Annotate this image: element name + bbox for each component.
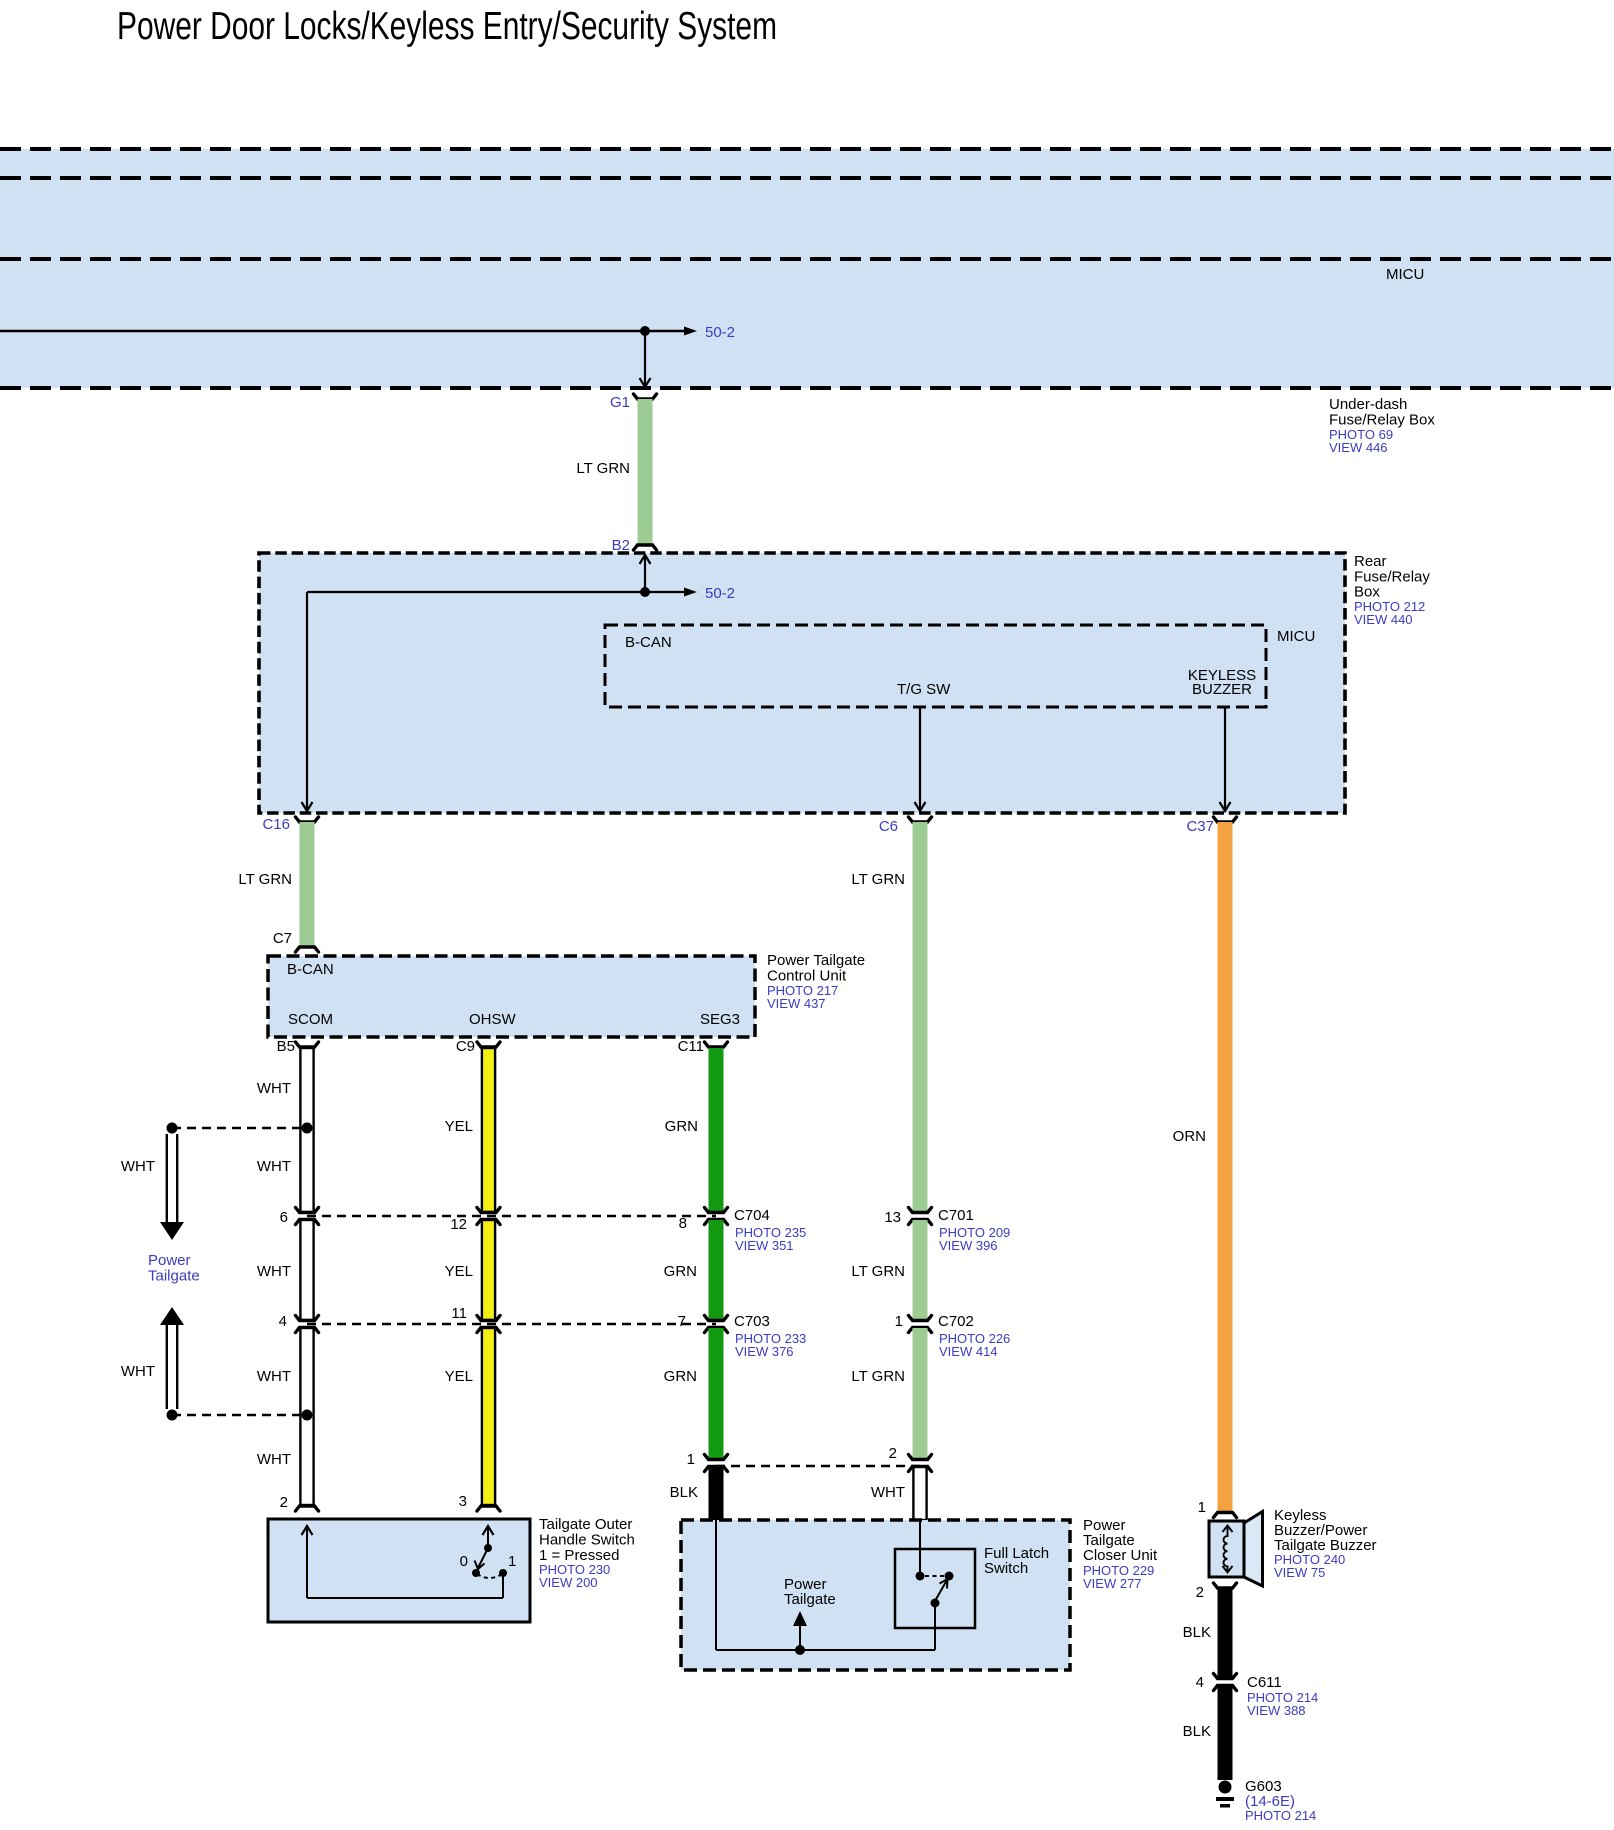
svg-text:YEL: YEL: [445, 1118, 473, 1135]
connector C16: [296, 817, 319, 822]
connector C9: [477, 1042, 500, 1047]
node: closer internal junction: [795, 1645, 805, 1655]
node: junction on WHT lower: [302, 1410, 313, 1421]
dashed latch contact link: [925, 1575, 945, 1577]
svg-text:C11: C11: [678, 1038, 704, 1055]
svg-text:VIEW 351: VIEW 351: [735, 1238, 794, 1253]
svg-text:6: 6: [280, 1209, 288, 1226]
connector B2: [634, 545, 657, 550]
connector B5: [296, 1042, 319, 1047]
wire: closer internal BLK path: [715, 1520, 717, 1650]
svg-text:C701: C701: [938, 1207, 974, 1224]
svg-text:C37: C37: [1186, 818, 1214, 835]
wire: closer internal WHT drop: [919, 1520, 921, 1574]
svg-text:1: 1: [895, 1313, 903, 1330]
node: junction in rear box: [640, 587, 650, 597]
B-CAN inner box (MICU): [605, 625, 1266, 707]
svg-text:G1: G1: [610, 394, 630, 411]
dashed net: closer unit row: [716, 1465, 920, 1467]
svg-text:4: 4: [279, 1313, 287, 1330]
svg-text:LT GRN: LT GRN: [238, 871, 292, 888]
wire LT GRN seg3: [913, 1328, 928, 1459]
node: contact 0 (handle switch): [472, 1569, 480, 1577]
wire: KEYLESS BUZZER to C37: [1224, 707, 1226, 810]
connector G1: [634, 394, 657, 399]
wire: feed to G1 junction: [0, 330, 645, 333]
connector pin 11: [477, 1316, 500, 1321]
full latch switch box: [895, 1549, 975, 1628]
node: latch contact right: [945, 1572, 954, 1581]
svg-text:50-2: 50-2: [705, 324, 735, 341]
connector pin 2 (closer unit): [909, 1455, 932, 1460]
svg-text:LT GRN: LT GRN: [851, 871, 905, 888]
wire LT GRN seg1: [913, 822, 928, 1212]
connector pin 12: [477, 1208, 500, 1213]
svg-text:WHT: WHT: [257, 1080, 291, 1097]
svg-text:VIEW 440: VIEW 440: [1354, 612, 1413, 627]
svg-text:B5: B5: [277, 1038, 295, 1055]
svg-text:8: 8: [679, 1215, 687, 1232]
svg-text:4: 4: [1196, 1674, 1204, 1691]
svg-text:1: 1: [687, 1451, 695, 1468]
dashed arc 0-1: [477, 1574, 502, 1578]
connector C704 pin 8: [705, 1208, 728, 1213]
svg-text:C611: C611: [1247, 1674, 1282, 1691]
wire: switch pin3 arrow: [483, 1526, 494, 1535]
svg-text:VIEW 376: VIEW 376: [735, 1344, 794, 1359]
svg-text:LT GRN: LT GRN: [851, 1263, 905, 1280]
svg-text:GRN: GRN: [664, 1263, 697, 1280]
connector pin 2 (handle switch): [296, 1506, 319, 1511]
svg-text:YEL: YEL: [445, 1368, 473, 1385]
svg-text:Tailgate Outer: Tailgate Outer: [539, 1516, 632, 1533]
svg-text:T/G SW: T/G SW: [897, 681, 951, 698]
svg-text:Box: Box: [1354, 584, 1380, 601]
wire YEL seg1: [482, 1048, 495, 1212]
svg-text:WHT: WHT: [121, 1363, 155, 1380]
svg-text:GRN: GRN: [664, 1368, 697, 1385]
svg-text:VIEW 75: VIEW 75: [1274, 1565, 1325, 1580]
svg-text:YEL: YEL: [445, 1263, 473, 1280]
svg-text:C16: C16: [262, 816, 290, 833]
connector C6: [909, 817, 932, 822]
connector C703 pin 7: [705, 1316, 728, 1321]
svg-text:Switch: Switch: [984, 1560, 1028, 1577]
svg-text:PHOTO 214: PHOTO 214: [1245, 1808, 1316, 1823]
svg-text:BUZZER: BUZZER: [1192, 681, 1252, 698]
svg-text:VIEW 388: VIEW 388: [1247, 1703, 1306, 1718]
dashed net: connector row 1: [307, 1215, 716, 1217]
svg-text:SCOM: SCOM: [288, 1011, 333, 1028]
buzzer body: [1209, 1521, 1244, 1577]
wire: run to C16: [307, 591, 645, 593]
wire LT GRN C16-C7: [300, 822, 315, 948]
svg-text:C9: C9: [456, 1038, 475, 1055]
svg-text:Under-dash: Under-dash: [1329, 396, 1407, 413]
wire: switch internal bottom run: [307, 1597, 503, 1599]
arrow: power tailgate (down): [166, 1134, 168, 1223]
svg-text:MICU: MICU: [1386, 266, 1424, 283]
svg-text:LT GRN: LT GRN: [576, 460, 630, 477]
wire: switch internal riser to contact 1: [502, 1576, 504, 1598]
svg-text:ORN: ORN: [1173, 1128, 1206, 1145]
node: left junction upper: [167, 1123, 178, 1134]
svg-text:1: 1: [508, 1553, 516, 1570]
wire YEL seg2: [482, 1220, 495, 1320]
svg-text:VIEW 396: VIEW 396: [939, 1238, 998, 1253]
svg-text:Rear: Rear: [1354, 553, 1387, 570]
wire WHT seg3: [300, 1328, 313, 1505]
svg-text:VIEW 200: VIEW 200: [539, 1575, 598, 1590]
buzzer coil: [1223, 1527, 1227, 1571]
wire BLK C611-G603: [1218, 1686, 1233, 1780]
power tailgate control unit box: [268, 956, 755, 1037]
svg-text:2: 2: [889, 1445, 897, 1462]
svg-text:GRN: GRN: [665, 1118, 698, 1135]
wire LT GRN G1-B2: [638, 399, 653, 546]
node: junction in band: [640, 326, 650, 336]
svg-text:C703: C703: [734, 1313, 770, 1330]
wire ORN C37-buzzer: [1218, 822, 1233, 1512]
svg-text:Handle Switch: Handle Switch: [539, 1532, 635, 1549]
wire GRN seg2: [709, 1220, 724, 1320]
svg-text:7: 7: [678, 1313, 686, 1330]
svg-text:B-CAN: B-CAN: [287, 961, 334, 978]
buzzer speaker cone: [1244, 1512, 1263, 1587]
svg-text:Power Door Locks/Keyless Entry: Power Door Locks/Keyless Entry/Security …: [117, 5, 777, 48]
svg-text:50-2: 50-2: [705, 585, 735, 602]
connector C11: [705, 1042, 728, 1047]
connector pin 3 (handle switch): [477, 1506, 500, 1511]
rear fuse/relay box: [259, 553, 1345, 813]
svg-text:Power Tailgate: Power Tailgate: [767, 952, 865, 969]
svg-text:Tailgate: Tailgate: [784, 1591, 836, 1608]
node: switch arm pivot: [484, 1544, 492, 1552]
ground G603: [1219, 1781, 1232, 1794]
wire WHT seg2: [300, 1220, 313, 1320]
svg-text:LT GRN: LT GRN: [851, 1368, 905, 1385]
connector pin 2 (buzzer): [1214, 1583, 1237, 1588]
svg-text:VIEW 437: VIEW 437: [767, 996, 826, 1011]
svg-text:BLK: BLK: [1183, 1624, 1211, 1641]
svg-text:WHT: WHT: [121, 1158, 155, 1175]
wire: B2 entry arrow: [644, 557, 646, 592]
svg-text:C704: C704: [734, 1207, 770, 1224]
svg-text:BLK: BLK: [670, 1484, 698, 1501]
svg-text:2: 2: [280, 1494, 288, 1511]
svg-text:BLK: BLK: [1183, 1723, 1211, 1740]
wire: T/G SW to C6: [919, 707, 921, 810]
wire YEL seg3: [482, 1328, 495, 1505]
node: latch common: [931, 1599, 940, 1608]
dashed net: junction row lower: [172, 1414, 307, 1416]
arrow: power tailgate (up): [160, 1307, 184, 1325]
svg-text:VIEW 446: VIEW 446: [1329, 440, 1388, 455]
tailgate outer handle switch box: [268, 1519, 530, 1622]
svg-text:WHT: WHT: [257, 1263, 291, 1280]
wire WHT to closer unit: [913, 1467, 926, 1520]
wire LT GRN seg2: [913, 1220, 928, 1320]
wire: 50-2 branch arrow (band): [645, 330, 684, 333]
svg-text:C702: C702: [938, 1313, 974, 1330]
wire GRN seg3: [709, 1328, 724, 1459]
svg-text:3: 3: [459, 1493, 467, 1510]
node: contact 1 (handle switch): [499, 1569, 507, 1577]
latch switch arm: [935, 1580, 947, 1601]
svg-text:1: 1: [1198, 1499, 1206, 1516]
svg-text:13: 13: [884, 1209, 901, 1226]
wire: drop to G1: [644, 331, 646, 386]
connector C611 pin 4: [1214, 1674, 1237, 1679]
svg-text:Power: Power: [148, 1252, 191, 1269]
svg-text:12: 12: [450, 1216, 467, 1233]
svg-text:C6: C6: [879, 818, 898, 835]
connector pin 1 (buzzer): [1214, 1513, 1237, 1518]
connector pin 1 (closer unit): [705, 1455, 728, 1460]
svg-text:WHT: WHT: [257, 1451, 291, 1468]
svg-text:Closer Unit: Closer Unit: [1083, 1547, 1158, 1564]
svg-text:Fuse/Relay Box: Fuse/Relay Box: [1329, 412, 1435, 429]
connector C37: [1214, 817, 1237, 822]
connector C702 pin 1: [909, 1316, 932, 1321]
svg-text:WHT: WHT: [257, 1368, 291, 1385]
svg-text:VIEW 277: VIEW 277: [1083, 1576, 1142, 1591]
svg-text:0: 0: [460, 1553, 468, 1570]
svg-text:Tailgate: Tailgate: [148, 1268, 200, 1285]
node: latch contact left: [916, 1572, 925, 1581]
wire WHT B5 seg1: [300, 1048, 313, 1212]
node: left junction lower: [167, 1410, 178, 1421]
connector pin 6: [296, 1208, 319, 1213]
connector C7: [296, 947, 319, 952]
wire: switch internal pin2 arrow: [302, 1526, 313, 1535]
wire BLK to closer unit: [709, 1467, 724, 1520]
node: junction on WHT upper: [302, 1123, 313, 1134]
wire: 50-2 branch arrow (rear): [645, 591, 684, 593]
dashed net: junction row upper: [172, 1127, 307, 1129]
svg-text:11: 11: [451, 1305, 467, 1322]
wire GRN seg1: [709, 1048, 724, 1212]
svg-text:MICU: MICU: [1277, 628, 1315, 645]
arrow: power tailgate (closer): [799, 1625, 801, 1650]
svg-text:VIEW 414: VIEW 414: [939, 1344, 998, 1359]
power tailgate closer unit box: [681, 1520, 1070, 1670]
connector C701 pin 13: [909, 1208, 932, 1213]
svg-text:WHT: WHT: [871, 1484, 905, 1501]
svg-text:B-CAN: B-CAN: [625, 634, 672, 651]
connector pin 4: [296, 1316, 319, 1321]
under-dash fuse/relay box band: [0, 149, 1614, 388]
svg-text:Control Unit: Control Unit: [767, 968, 847, 985]
svg-text:WHT: WHT: [257, 1158, 291, 1175]
switch arm (to 0): [478, 1548, 488, 1568]
wire BLK buzzer-C611: [1218, 1588, 1233, 1678]
dashed net: connector row 2: [307, 1323, 716, 1325]
svg-text:SEG3: SEG3: [700, 1011, 740, 1028]
svg-text:2: 2: [1196, 1584, 1204, 1601]
svg-text:OHSW: OHSW: [469, 1011, 517, 1028]
svg-text:C7: C7: [273, 930, 292, 947]
